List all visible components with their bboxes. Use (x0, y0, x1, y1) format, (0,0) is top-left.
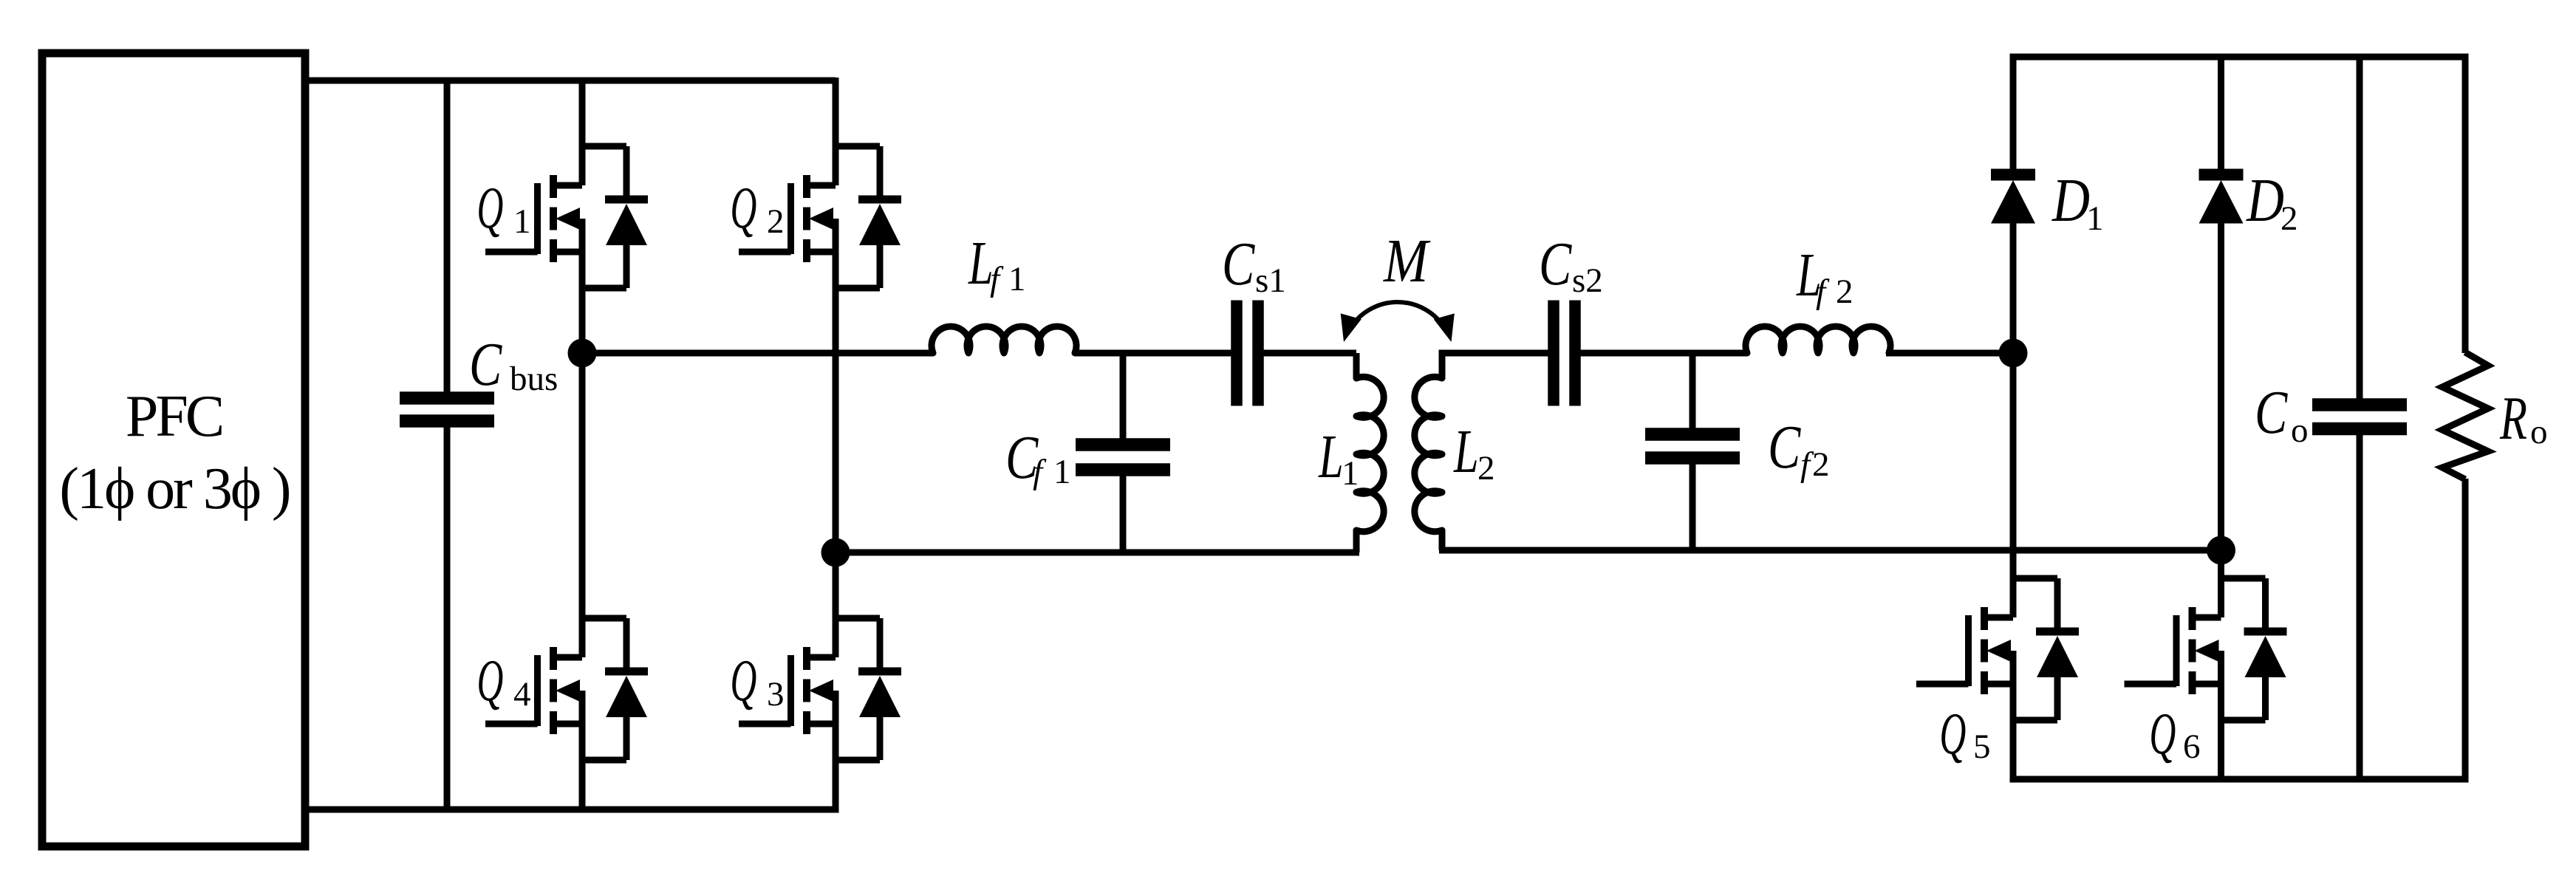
capacitor Cbus (400, 398, 494, 421)
wire L1 top corner (1353, 353, 1360, 378)
svg-text:Q: Q (477, 648, 504, 713)
svg-text:1: 1 (1008, 260, 1026, 298)
wire D2 anode to Q6 (2218, 222, 2224, 617)
transistor Q1 (485, 146, 648, 288)
diode D2 (2199, 175, 2244, 224)
svg-text:s2: s2 (1572, 261, 1603, 300)
wire Lf2 to rectifier (1886, 350, 2013, 357)
wire Q4 source leg (579, 691, 586, 809)
inductor L2 secondary winding (1415, 377, 1442, 531)
capacitor Co (2312, 405, 2407, 429)
svg-text:C: C (1222, 230, 1256, 298)
wire Cf2 lower leg (1690, 457, 1696, 550)
svg-text:(1ϕ or 3ϕ ): (1ϕ or 3ϕ ) (59, 456, 290, 521)
svg-text:C: C (469, 331, 503, 399)
wire Co lower leg (2357, 428, 2363, 779)
PFC block box (42, 53, 305, 846)
transistor Q5 (1916, 578, 2079, 720)
mutual inductance arrow M (1341, 302, 1455, 342)
svg-text:L: L (1453, 417, 1478, 485)
wire right leg midpoint rail (833, 219, 839, 657)
svg-text:R: R (2499, 383, 2527, 452)
wire Cf1 upper leg (1120, 353, 1127, 445)
wire Cf1 lower leg (1120, 469, 1127, 552)
svg-text:D: D (2051, 165, 2090, 234)
node bridge output A (568, 339, 597, 368)
svg-text:5: 5 (1973, 728, 1991, 766)
wire Q6 source leg (2218, 651, 2224, 779)
wire top input bus (305, 78, 836, 84)
wire Cs2 to Lf2 (1574, 350, 1747, 357)
wire Lf1 to Cs1 (1075, 350, 1238, 357)
svg-text:1: 1 (2086, 199, 2104, 238)
wire tank bottom right (1439, 547, 2221, 554)
wire D1 anode to Q5 (2010, 222, 2017, 617)
wire L1 bottom corner (1353, 530, 1360, 552)
wire L2 bottom corner (1439, 530, 1446, 550)
svg-text:Q: Q (477, 176, 504, 241)
svg-text:4: 4 (513, 675, 531, 713)
svg-text:bus: bus (510, 360, 558, 398)
svg-text:2: 2 (1477, 449, 1495, 487)
wire Q5 source leg (2010, 651, 2017, 779)
wire Cbus upper leg (444, 78, 451, 399)
svg-text:Q: Q (1940, 702, 1967, 767)
inductor Lf2 (1746, 326, 1890, 353)
transistor Q6 (2125, 578, 2287, 720)
svg-text:3: 3 (767, 675, 785, 713)
node bridge output B (821, 538, 850, 567)
node rectifier input (1999, 339, 2028, 368)
svg-text:2: 2 (2281, 199, 2298, 238)
wire tank bottom left (836, 550, 1359, 556)
svg-text:L: L (1318, 422, 1343, 490)
svg-text:2: 2 (1836, 273, 1854, 311)
wire Q1 drain leg (579, 78, 586, 185)
wire Cbus lower leg (444, 420, 451, 809)
wire bridge A to Lf1 (582, 350, 933, 357)
wire Ro lower leg (2462, 479, 2469, 779)
svg-text:o: o (2530, 413, 2548, 451)
wire D1 cathode leg (2010, 57, 2017, 169)
wire Q2 drain leg (833, 78, 839, 185)
svg-text:Q: Q (2150, 702, 2176, 767)
wire output top rail (2010, 57, 2466, 353)
svg-text:Q: Q (731, 176, 757, 241)
transistor Q4 (485, 618, 648, 760)
wire Cs1 to L1 (1257, 350, 1356, 357)
svg-text:o: o (2291, 411, 2309, 450)
svg-text:2: 2 (767, 202, 785, 241)
wire Co upper leg (2357, 57, 2363, 405)
svg-text:Q: Q (731, 648, 757, 713)
capacitor Cs1 (1237, 301, 1258, 406)
svg-text:6: 6 (2183, 728, 2201, 766)
wire L2 top corner (1442, 353, 1554, 378)
resistor Ro (2442, 352, 2488, 479)
wire bottom input bus (305, 807, 836, 813)
svg-text:PFC: PFC (126, 384, 222, 449)
svg-text:1: 1 (513, 202, 531, 241)
svg-text:1: 1 (1342, 454, 1359, 493)
wire output bottom rail (2010, 776, 2469, 783)
capacitor Cf2 (1645, 434, 1740, 458)
inductor Lf1 (932, 326, 1076, 353)
wire Cf2 upper leg (1690, 353, 1696, 435)
svg-text:2: 2 (1812, 445, 1830, 484)
wire D2 cathode leg (2218, 57, 2224, 169)
svg-text:s1: s1 (1255, 261, 1286, 300)
svg-text:M: M (1383, 226, 1431, 295)
capacitor Cs2 (1554, 301, 1575, 406)
transistor Q2 (739, 146, 901, 288)
svg-text:C: C (1768, 414, 1802, 482)
node tank return (2207, 536, 2235, 565)
diode D1 (1991, 175, 2035, 224)
svg-text:C: C (1539, 230, 1573, 298)
svg-text:D: D (2246, 165, 2284, 234)
capacitor Cf1 (1076, 445, 1170, 470)
svg-text:1: 1 (1053, 453, 1071, 491)
transistor Q3 (739, 618, 901, 760)
svg-text:C: C (2255, 379, 2289, 447)
wire Q3 source leg (833, 691, 839, 813)
inductor L1 primary winding (1356, 377, 1384, 531)
wire left leg midpoint rail (579, 219, 586, 657)
